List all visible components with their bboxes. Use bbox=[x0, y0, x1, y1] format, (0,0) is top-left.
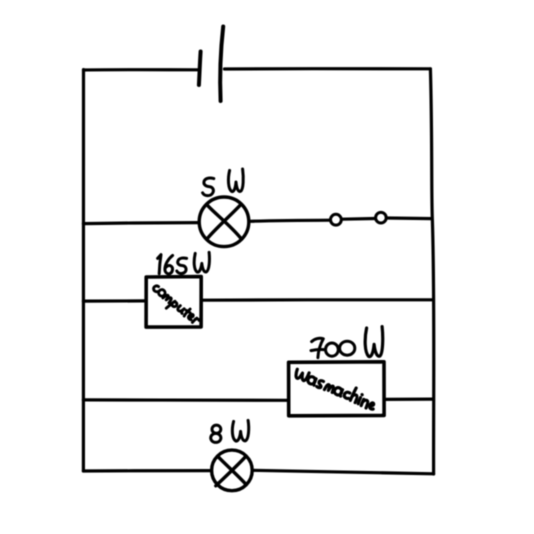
wire top left segment bbox=[84, 68, 198, 72]
lamp L2 circle (8 W) bbox=[212, 450, 253, 491]
label 0 second (700 W) bbox=[340, 341, 355, 355]
wire switch to right edge bbox=[387, 216, 432, 220]
label W (700 W) bbox=[365, 327, 383, 357]
resistor box computer bbox=[146, 277, 201, 328]
switch S1 terminal circle right bbox=[376, 212, 387, 223]
battery cell B1 positive plate (long bar) bbox=[220, 27, 223, 102]
label 0 first (700 W) bbox=[326, 343, 339, 356]
switch S1 terminal circle left bbox=[331, 214, 342, 225]
lamp L1 circle (5 W) bbox=[199, 197, 249, 247]
label wasmachine (diagonal handwriting) bbox=[293, 367, 378, 410]
label W (165W) bbox=[194, 252, 209, 272]
label 8 bottom loop bbox=[211, 433, 221, 442]
lamp L2 cross stroke 2 bbox=[216, 456, 246, 486]
wire branch3 right bbox=[202, 298, 433, 302]
wire branch4 left (to wasmachine) bbox=[83, 398, 288, 402]
wire bottom left segment bbox=[83, 469, 211, 473]
wire right vertical bbox=[430, 69, 433, 474]
battery cell B1 negative plate (short bar) bbox=[199, 52, 201, 86]
wire top right segment bbox=[225, 67, 431, 71]
resistor box wasmachine bbox=[289, 362, 385, 416]
lamp L2 cross stroke 1 bbox=[218, 456, 247, 484]
wire branch4 right bbox=[384, 398, 433, 401]
wire branch2 lamp to switch bbox=[249, 220, 330, 221]
label W (5 W) bbox=[228, 169, 243, 192]
wire bottom right segment bbox=[252, 470, 433, 474]
label 8 (8 W) bbox=[212, 425, 221, 433]
switch S1 link line bbox=[342, 217, 376, 221]
label 6 (165W) bbox=[165, 255, 173, 273]
label W (8 W) bbox=[232, 420, 248, 441]
label 1 (165W) bbox=[158, 255, 161, 274]
lamp L1 cross stroke 1 bbox=[207, 204, 242, 239]
wire branch2 left (to lamp L1) bbox=[83, 223, 199, 224]
wire left vertical bbox=[81, 70, 85, 471]
label 7 crossbar bbox=[311, 349, 324, 350]
label computer (diagonal handwriting) bbox=[149, 283, 202, 329]
wire branch3 left (to computer) bbox=[83, 299, 145, 302]
label 5 (5 W) bbox=[203, 178, 214, 196]
label 5 (165W) bbox=[177, 258, 187, 273]
lamp L1 cross stroke 2 bbox=[207, 204, 241, 239]
label 7 (700 W) bbox=[312, 338, 324, 357]
